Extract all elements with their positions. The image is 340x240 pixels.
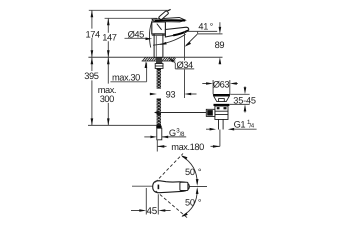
label G1 1/4 with underline [234, 119, 255, 130]
svg-text:41°: 41° [198, 22, 213, 32]
top view handle outline [153, 181, 190, 193]
countertop hatching [142, 57, 175, 61]
countertop deck line [88, 56, 222, 58]
top view handle centerline right [188, 186, 207, 188]
lever knob [159, 11, 169, 20]
dimension max.180 label [171, 142, 204, 152]
svg-text:50°: 50° [185, 197, 202, 207]
svg-text:50°: 50° [185, 167, 202, 177]
popup waste diameter 63 dimension [202, 80, 238, 94]
svg-text:35-45: 35-45 [233, 96, 256, 106]
dimension 45 label [147, 206, 158, 217]
label diameter 34 with underline and leader [177, 60, 194, 70]
label 41 degrees [198, 22, 213, 32]
svg-text:max.180: max.180 [171, 142, 204, 152]
spout [165, 27, 188, 37]
bottom reference line (hose end level) [88, 124, 157, 126]
threaded shank below deck [156, 57, 162, 68]
G1 1/4 width arrows [206, 128, 210, 130]
supply hose upper part [157, 68, 161, 88]
popup waste stem [219, 99, 225, 102]
dimension 45 line and arrows [131, 210, 171, 212]
lever handle blade side view [152, 18, 186, 22]
svg-text:395: 395 [84, 71, 98, 81]
faucet base inner edge line [155, 36, 157, 57]
spout thick underside edge [173, 31, 188, 36]
dimension 89 label [215, 40, 225, 50]
countertop underside line [142, 60, 176, 62]
tick at end of 174 extension line [168, 9, 171, 11]
svg-text:147: 147 [102, 33, 116, 43]
popup waste plug body trapezoid [214, 96, 230, 102]
supply hose lower part [157, 99, 161, 126]
dimension 174 label [86, 29, 100, 39]
arrowheads on upper arc [181, 155, 199, 186]
svg-text:93: 93 [166, 90, 176, 100]
dimension 89 arrows [219, 22, 221, 64]
dimension 174 extension line top [89, 9, 170, 11]
svg-text:max.30: max.30 [112, 72, 140, 82]
svg-text:Ø63: Ø63 [213, 79, 230, 89]
spout level reference line [198, 31, 223, 34]
dimension 174 arrows [91, 10, 94, 57]
dimension 147 extension line top [105, 17, 157, 19]
popup waste body [215, 106, 228, 119]
50 degree arc upper [182, 156, 197, 183]
label G3/8 with underline [169, 128, 185, 139]
arrowhead on swivel arc [160, 42, 167, 45]
faucet body box [152, 22, 166, 34]
G3/8 width arrows [144, 136, 152, 138]
svg-text:89: 89 [215, 40, 225, 50]
pop-up rod end knob [154, 111, 159, 115]
G3/8 fitting [157, 128, 162, 140]
dimension 395 arrows [91, 57, 94, 125]
41 degree leader with arrowhead [186, 34, 198, 45]
50 degree dashed line lower [156, 191, 189, 219]
svg-text:G1: G1 [234, 120, 246, 130]
dimension 35-45 arrows [244, 86, 246, 112]
spout projection extension line (from spout tip) [184, 32, 186, 99]
popup waste rod socket [206, 109, 215, 116]
top view handle tip inner box [180, 182, 188, 190]
popup waste flange [214, 104, 230, 106]
dimension max.300 arrows [107, 57, 110, 125]
svg-text:300: 300 [100, 94, 114, 104]
arrowheads on lower arc [181, 187, 198, 217]
dimension 395 line [91, 57, 93, 125]
lever blade thick lower edge [155, 19, 186, 22]
dimension max.300 label [98, 85, 116, 104]
top view handle centerline stub left [132, 185, 153, 187]
popup waste body detail squares [217, 107, 227, 109]
popup waste plug top [213, 94, 230, 96]
label diameter 45 with underline and arrow [128, 30, 145, 40]
dimension 174 line [91, 10, 93, 57]
pop-up rod line [159, 112, 208, 114]
faucet body inner diagonal detail [157, 24, 162, 30]
50 degree arc lower [182, 190, 197, 216]
dimension 147 label [102, 33, 116, 43]
svg-text:174: 174 [86, 29, 100, 39]
hose crimp [156, 126, 161, 129]
handle swivel arc under spout [153, 34, 186, 45]
dimension 147 arrows [107, 18, 110, 57]
faucet base column [154, 34, 163, 57]
lever rotation arc left of body [149, 20, 152, 48]
popup waste tailpipe [219, 119, 224, 129]
41 degree underline [186, 30, 217, 32]
top view handle pivot tick [158, 185, 160, 190]
50 degree label lower [185, 197, 202, 207]
faucet base bottom line [152, 34, 166, 36]
svg-text:45: 45 [147, 206, 158, 217]
dimension 147 line [107, 18, 109, 57]
dimension 395 label [84, 71, 98, 81]
dimension max.180 line with arrows [157, 130, 220, 152]
50 degree dashed line upper [155, 154, 183, 183]
dimension 93 arrows and label [150, 93, 197, 95]
dimension max.300 line [107, 57, 109, 125]
mounting nut [155, 64, 163, 69]
50 degree label upper [185, 167, 202, 177]
dimension 35-45 label [233, 96, 256, 106]
dimension 45 extension lines [146, 188, 158, 215]
label max.30 with underline and leader to countertop [112, 72, 140, 82]
dimension 35-45 extension lines [230, 94, 250, 104]
